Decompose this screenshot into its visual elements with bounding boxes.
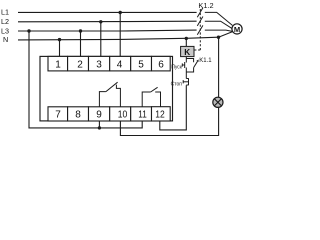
svg-text:N: N <box>3 35 8 44</box>
svg-text:5: 5 <box>138 60 144 71</box>
wire L3 line <box>18 29 197 32</box>
pushbutton stop (Stop) NC <box>183 72 188 85</box>
mechanical link dashed <box>194 9 200 50</box>
device relay body <box>40 56 173 121</box>
wire L2 line <box>18 20 197 23</box>
svg-text:12: 12 <box>155 109 165 120</box>
svg-text:1: 1 <box>55 60 61 71</box>
wire N line <box>18 32 233 40</box>
wire K coil top to N <box>185 38 187 46</box>
arrowhead K1.1 blade <box>196 60 198 63</box>
wire t9 stub <box>98 121 100 128</box>
svg-text:11: 11 <box>138 109 147 120</box>
svg-text:L2: L2 <box>1 17 9 26</box>
wire t2 drop from L3 <box>80 31 82 57</box>
wire t10 stub to lamp run <box>120 107 218 135</box>
wire t4 drop from L1 <box>119 13 121 58</box>
wire t12 stub to control riser <box>160 85 187 130</box>
contact K1.1 branch <box>186 61 197 72</box>
svg-text:9: 9 <box>96 109 102 120</box>
wire t3 drop from L2 <box>100 22 102 57</box>
labels L1 L2 L3 N <box>1 8 9 45</box>
terminal numbers top 1-6 <box>55 60 164 71</box>
contactor contacts K1.2 (3 poles) <box>197 8 203 35</box>
svg-text:L1: L1 <box>1 8 9 17</box>
svg-text:10: 10 <box>118 109 128 120</box>
contact relay right (11-12) <box>142 87 160 107</box>
wire L1 line <box>18 11 197 13</box>
contact relay left (9-10) <box>99 82 120 107</box>
pushbutton start (Pusk) NO <box>182 62 186 72</box>
svg-text:7: 7 <box>55 109 61 120</box>
terminal numbers bottom 7-12 <box>55 109 165 120</box>
svg-text:K: K <box>184 48 190 57</box>
svg-text:M: M <box>234 25 240 34</box>
wires contacts to motor <box>205 12 233 31</box>
wire lamp top to N <box>218 37 220 97</box>
svg-text:K1.2: K1.2 <box>198 1 213 10</box>
svg-text:L3: L3 <box>1 26 9 35</box>
motor M <box>232 24 242 34</box>
control wire K to node A and branch <box>186 57 193 63</box>
svg-text:8: 8 <box>75 109 81 120</box>
svg-text:Пуск: Пуск <box>171 65 183 71</box>
svg-text:4: 4 <box>117 60 123 71</box>
svg-text:3: 3 <box>96 60 102 71</box>
svg-text:Стоп: Стоп <box>171 82 183 88</box>
wire t1 drop from N <box>59 40 61 57</box>
svg-text:6: 6 <box>158 60 164 71</box>
svg-text:K1.1: K1.1 <box>199 58 212 64</box>
wire L3 left riser to bottom <box>29 31 142 128</box>
svg-text:2: 2 <box>77 60 83 71</box>
lamp indicator <box>213 97 223 107</box>
contactor coil K <box>181 46 194 56</box>
terminal row top boxes <box>48 56 170 71</box>
terminal row bottom boxes <box>48 107 170 121</box>
